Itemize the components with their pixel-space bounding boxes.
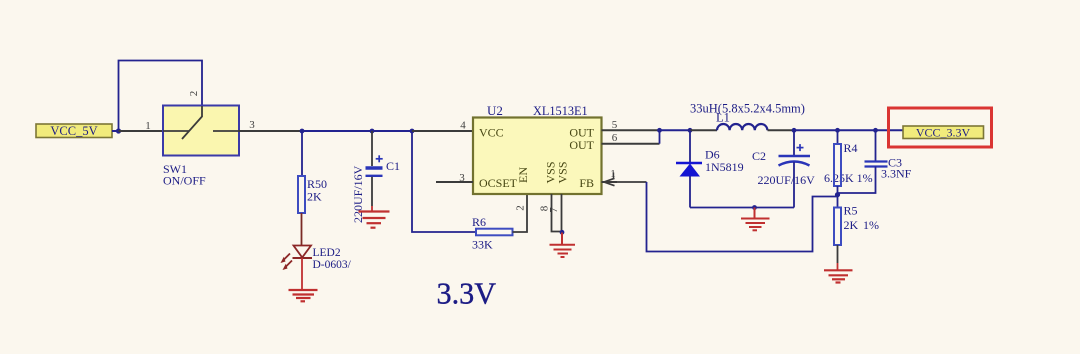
svg-text:220UF/16V: 220UF/16V — [351, 165, 365, 223]
wire OUT6 up to OUT5 — [659, 130, 661, 143]
svg-text:D-0603/: D-0603/ — [313, 259, 352, 271]
ground below LED2 — [289, 290, 318, 301]
svg-text:C1: C1 — [386, 159, 400, 173]
svg-text:2: 2 — [188, 91, 200, 97]
svg-text:1%: 1% — [863, 218, 879, 232]
pin lead VSS 7 — [561, 194, 563, 233]
capacitor C3 — [838, 130, 912, 193]
wire node to C1 — [371, 131, 373, 166]
svg-text:VCC: VCC — [479, 126, 504, 140]
capacitor C1 — [351, 155, 400, 223]
wire LED2 to ground — [301, 258, 303, 290]
svg-text:VCC_5V: VCC_5V — [50, 124, 97, 138]
ground below C1 — [359, 212, 390, 228]
svg-text:33uH(5.8x5.2x4.5mm): 33uH(5.8x5.2x4.5mm) — [690, 102, 805, 116]
node junction VSS — [560, 230, 565, 235]
svg-text:220UF/16V: 220UF/16V — [758, 173, 816, 187]
node A junction FB/R4/R5 — [835, 192, 840, 197]
svg-text:ON/OFF: ON/OFF — [163, 174, 206, 188]
node junction R4 branch — [835, 128, 840, 133]
wire FB route — [617, 181, 647, 183]
svg-text:EN: EN — [516, 167, 530, 183]
wire top loop to switch pin 2 — [119, 61, 203, 132]
wire switch pin3 to node R50 — [239, 130, 302, 132]
svg-text:OUT: OUT — [569, 138, 594, 152]
wire OUT node to D6 node — [660, 129, 691, 131]
wire R50 to LED2 — [301, 213, 303, 246]
svg-text:R4: R4 — [844, 141, 858, 155]
svg-text:1N5819: 1N5819 — [705, 160, 744, 174]
resistor R50 — [298, 176, 327, 213]
svg-text:7: 7 — [548, 207, 560, 213]
node junction D6 branch — [688, 128, 693, 133]
wire C1 to ground — [371, 177, 373, 206]
op IC U2 XL1513E1 — [473, 103, 602, 194]
power port VCC_5V — [36, 124, 112, 138]
wire ground rail D6 to C2 — [690, 207, 794, 209]
node junction C3 branch — [873, 128, 878, 133]
wire node to R50 — [301, 131, 303, 176]
svg-text:LED2: LED2 — [313, 247, 341, 259]
switch SW1 — [163, 106, 239, 188]
svg-text:U2: U2 — [487, 103, 503, 118]
svg-text:FB: FB — [579, 176, 594, 190]
power port VCC_3.3V — [903, 126, 984, 140]
ground below R5 — [824, 270, 853, 282]
wire node R50 to node C1 to node EN — [302, 130, 412, 132]
node junction at VCC_5V — [116, 128, 121, 133]
wire C2 node to R4 node — [794, 129, 903, 131]
wire R5 to ground — [837, 245, 839, 263]
inductor L1 — [690, 102, 805, 131]
svg-text:1: 1 — [145, 120, 151, 132]
svg-text:R6: R6 — [472, 215, 486, 229]
svg-text:R5: R5 — [844, 204, 858, 218]
resistor R6 — [472, 215, 513, 252]
svg-text:VSS: VSS — [556, 161, 570, 183]
svg-text:C2: C2 — [752, 149, 766, 163]
wire IC pin 4 lead — [412, 130, 473, 132]
wire node to switch pin 1 — [119, 130, 164, 132]
pin lead OUT5 — [602, 129, 660, 131]
capacitor C2 — [752, 130, 815, 207]
LED D2 — [281, 246, 352, 272]
diode D6 1N5819 — [676, 130, 744, 207]
node junction R50 branch — [300, 129, 305, 134]
svg-text:OCSET: OCSET — [479, 176, 518, 190]
svg-text:2K: 2K — [307, 190, 322, 204]
ground below VSS — [550, 233, 576, 258]
svg-text:2K: 2K — [844, 218, 859, 232]
node junction C1 branch — [370, 129, 375, 134]
resistor R5 — [834, 204, 879, 246]
node junction EN branch — [410, 129, 415, 134]
ground below rail — [741, 208, 770, 231]
pin lead VSS 8 — [552, 194, 562, 232]
wire node EN down to R6 — [412, 131, 476, 232]
svg-text:3.3NF: 3.3NF — [881, 167, 912, 181]
pin lead OCSET — [436, 181, 473, 183]
pin FB arrow symbol — [602, 173, 618, 186]
svg-text:6.25K 1%: 6.25K 1% — [824, 171, 873, 185]
red highlight box — [889, 108, 992, 147]
svg-text:5: 5 — [612, 119, 618, 131]
wire R6 to IC pin 2 EN — [513, 194, 528, 232]
node junction C2 branch — [792, 128, 797, 133]
node junction ground rail — [752, 205, 757, 210]
svg-text:6: 6 — [612, 132, 618, 144]
svg-text:3: 3 — [249, 119, 255, 131]
node junction OUT — [657, 128, 662, 133]
svg-text:VCC_3.3V: VCC_3.3V — [916, 126, 971, 140]
resistor R4 — [824, 130, 873, 207]
svg-text:4: 4 — [460, 120, 466, 132]
pin lead OUT6 — [602, 143, 660, 145]
svg-text:XL1513E1: XL1513E1 — [533, 104, 588, 118]
svg-text:3.3V: 3.3V — [437, 277, 497, 311]
svg-text:2: 2 — [515, 205, 527, 211]
svg-text:33K: 33K — [472, 238, 493, 252]
wire VCC_5V to node — [112, 130, 118, 132]
